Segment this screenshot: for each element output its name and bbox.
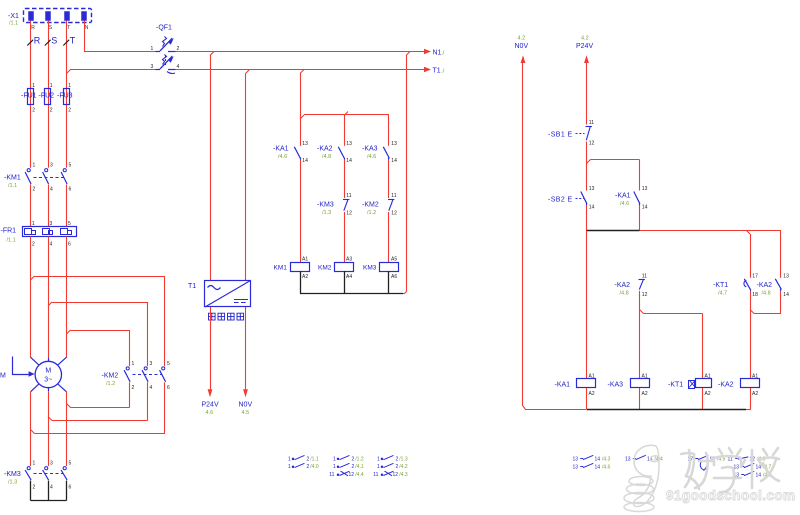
branch to KA1 holding contact (587, 160, 640, 191)
svg-text:/4.6: /4.6 (367, 154, 376, 160)
xref KM2 row 2: 1-2 /4.1 (333, 463, 364, 470)
watermark character xue (714, 448, 741, 492)
svg-text:N0V: N0V (239, 402, 253, 409)
coil KM1 (291, 263, 310, 272)
svg-text:P24V: P24V (202, 402, 219, 409)
svg-text:17: 17 (752, 273, 758, 279)
svg-text:14: 14 (589, 205, 595, 211)
wire L3 KM1 to FR1 (66, 185, 68, 227)
svg-text:1: 1 (32, 221, 35, 227)
svg-text:11: 11 (329, 472, 334, 478)
svg-text:4.2: 4.2 (581, 36, 589, 42)
wire KM3 coil to return bus (388, 271, 390, 294)
xref KT1 row 1: 17-18 /4.5 (688, 455, 726, 470)
svg-text:1: 1 (377, 456, 380, 462)
svg-text:5: 5 (167, 361, 170, 367)
wire KA1 to junction bar (639, 205, 641, 231)
svg-text:/: / (443, 50, 445, 57)
svg-text:A6: A6 (391, 274, 397, 280)
coil KT1 (689, 379, 712, 389)
wire KM3 NC to KM2 coil (344, 212, 346, 262)
svg-text:3~: 3~ (44, 377, 52, 384)
svg-text:/1.3: /1.3 (8, 480, 17, 486)
svg-text:T: T (70, 36, 76, 46)
svg-text:N0V: N0V (515, 43, 529, 50)
svg-text:-KA2: -KA2 (615, 282, 631, 289)
wire phase L1 from X1 to fuse (30, 21, 32, 168)
thermal overload relay FR1 (23, 227, 77, 237)
svg-text:-KM2: -KM2 (102, 373, 119, 380)
svg-text:KM2: KM2 (318, 265, 332, 272)
xref KM2 row 1: 1-2 /1.2 (333, 455, 364, 462)
wire L1 FR1 to motor (30, 236, 32, 357)
svg-text:5: 5 (69, 163, 72, 169)
motor M1 3-phase (35, 361, 61, 387)
svg-text:2: 2 (352, 456, 355, 462)
svg-text:11: 11 (642, 273, 647, 279)
motor stub bottom-right (58, 384, 67, 392)
svg-text:/: / (443, 68, 445, 75)
wire V2 motor to KM3 (48, 391, 50, 466)
svg-text:12: 12 (589, 141, 595, 147)
svg-text:11: 11 (589, 120, 594, 126)
svg-text:2: 2 (33, 485, 36, 491)
svg-text:/1.3: /1.3 (399, 456, 408, 462)
svg-text:-KM3: -KM3 (4, 471, 21, 478)
wire drop to T1 transformer right (246, 70, 250, 281)
relay contact KA3 NO (383, 147, 389, 160)
svg-text:1: 1 (50, 83, 53, 89)
svg-text:3: 3 (150, 361, 153, 367)
motor stub top-right (58, 357, 67, 365)
wire P24V column to KA1 coil (586, 231, 588, 380)
label DC power text (209, 313, 244, 320)
svg-text:6: 6 (167, 385, 170, 391)
svg-text:91goodschool.com: 91goodschool.com (666, 488, 795, 503)
xref KA1 row 1: 13-14 /4.3 (573, 455, 611, 462)
coil return bus (300, 293, 403, 295)
svg-text:4: 4 (50, 485, 53, 491)
svg-text:/4.8: /4.8 (762, 291, 771, 297)
wire T1 output N0V (245, 307, 247, 389)
svg-text:R: R (31, 25, 35, 31)
fuse FU1 (28, 89, 34, 105)
wire SB2 to junction bar (586, 205, 588, 231)
svg-text:2: 2 (352, 464, 355, 470)
svg-text:14: 14 (595, 464, 601, 470)
svg-text:A4: A4 (346, 274, 352, 280)
svg-text:12: 12 (391, 211, 397, 217)
svg-text:12: 12 (642, 292, 648, 298)
xref KA2 row 2: 13-14 /4.7 (734, 463, 772, 470)
branch L1 to KM2 pole 5 (31, 276, 166, 366)
wire KM2 NC to KM3 coil (388, 212, 390, 262)
arrow N0V down (243, 389, 248, 397)
svg-text:1: 1 (33, 163, 36, 169)
svg-text:14: 14 (595, 456, 601, 462)
svg-text:1: 1 (377, 464, 380, 470)
relay contact KA2 NO (338, 147, 344, 160)
svg-text:/4.8: /4.8 (322, 154, 331, 160)
junction bar SB2-KA1 (587, 230, 640, 232)
terminal letters R S T N (31, 25, 89, 31)
svg-text:-KT1: -KT1 (713, 282, 728, 289)
coil KM2 (335, 263, 354, 272)
wire drop to control ladder (300, 70, 304, 146)
svg-text:13: 13 (302, 141, 308, 147)
svg-text:18: 18 (752, 292, 758, 298)
wire T1 line (176, 69, 426, 71)
svg-text:T: T (67, 25, 70, 31)
svg-text:M: M (0, 373, 6, 380)
svg-text:-KA3: -KA3 (362, 146, 378, 153)
svg-text:13: 13 (642, 186, 648, 192)
svg-text:-KA3: -KA3 (608, 382, 624, 389)
fuse FU2 (45, 89, 51, 105)
transformer T1 DC power supply (205, 281, 251, 308)
contactor KM1 main contacts (25, 169, 67, 184)
wire L2 FR1 to motor (48, 236, 50, 358)
wire KM1 coil to return bus (300, 271, 302, 294)
svg-text:KM3: KM3 (363, 265, 377, 272)
svg-text:A1: A1 (302, 257, 308, 263)
motor stub bottom-center (48, 388, 50, 392)
xref KM3 row 3: 11-12 /4.3 (373, 471, 408, 478)
svg-text:2: 2 (33, 187, 36, 193)
wire KM2 coil to return bus (344, 271, 346, 294)
wire KT1 contact to KA2 coil (750, 291, 752, 314)
svg-text:3: 3 (50, 461, 53, 467)
svg-text:-KA2: -KA2 (757, 282, 773, 289)
svg-text:T1: T1 (188, 283, 196, 290)
watermark character xiao (741, 448, 779, 488)
svg-text:/1.1: /1.1 (8, 183, 17, 189)
coil KM3 (380, 263, 399, 272)
motor stub top-center (48, 358, 50, 362)
phase mark slash on L3 (63, 40, 69, 46)
svg-text:2: 2 (307, 456, 310, 462)
star point link of KM3 (31, 481, 67, 501)
svg-text:/1.2: /1.2 (355, 456, 364, 462)
svg-text:/1.1: /1.1 (7, 238, 16, 244)
wire L1 KM1 to FR1 (30, 185, 32, 227)
svg-text:/4.3: /4.3 (399, 472, 408, 478)
svg-text:4: 4 (150, 385, 153, 391)
svg-text:14: 14 (783, 292, 789, 298)
wire KT1 coil to bottom bus (702, 388, 704, 410)
svg-text:-FR1: -FR1 (1, 228, 17, 235)
arrow P24V down (208, 389, 213, 397)
svg-text:6: 6 (69, 485, 72, 491)
wire phase L2 from X1 to fuse (48, 21, 50, 168)
svg-text:P24V: P24V (576, 43, 593, 50)
motor stub bottom-left (31, 384, 40, 392)
svg-text:13: 13 (391, 141, 397, 147)
branch L2 to KM2 pole 3 (48, 302, 148, 366)
wire branch from T to QF1 pin3 (67, 70, 156, 74)
svg-text:11: 11 (346, 193, 351, 199)
terminal strip X1 (24, 9, 92, 23)
watermark character hao (681, 450, 713, 489)
svg-text:3: 3 (50, 163, 53, 169)
wire P24V down to SB1 (586, 63, 588, 125)
arrow N0V from 4.2 (521, 55, 526, 63)
svg-text:N1: N1 (433, 50, 442, 57)
svg-text:-KA1: -KA1 (555, 382, 571, 389)
svg-text:-FU1: -FU1 (21, 93, 37, 100)
wire KM2 pole2 to motor V2 (48, 382, 148, 420)
svg-text:2: 2 (132, 385, 135, 391)
wire KA2 NC to KA3 coil (640, 291, 703, 379)
motor stub top-left (31, 357, 40, 365)
svg-text:1: 1 (288, 456, 291, 462)
phase mark slash on L2 (45, 40, 51, 46)
wire KA2 coil to bottom bus (750, 388, 752, 410)
svg-text:-KT1: -KT1 (668, 382, 683, 389)
coil KA3 (631, 379, 650, 388)
svg-text:T1: T1 (433, 68, 441, 75)
interlock contact KM3 NC (343, 200, 349, 211)
coil KA1 (577, 379, 596, 388)
svg-text:-KA1: -KA1 (615, 193, 631, 200)
svg-text:13: 13 (573, 456, 579, 462)
xref KA2 row 3: 13-14 /4.8 (734, 471, 772, 478)
svg-text:A1: A1 (705, 374, 711, 380)
wire N0V rail (523, 63, 587, 410)
wire return to N1 for coils (401, 52, 411, 294)
svg-text:/1.1: /1.1 (9, 21, 18, 27)
wire L3 FR1 to motor (66, 236, 68, 357)
start button SB2 NO (576, 192, 587, 206)
svg-text:A2: A2 (302, 274, 308, 280)
phase mark slash on L1 (27, 40, 33, 46)
svg-text:2: 2 (396, 456, 399, 462)
wire W2 motor to KM3 (66, 392, 68, 466)
svg-text:13: 13 (589, 186, 595, 192)
svg-text:13: 13 (346, 141, 352, 147)
svg-text:4.5: 4.5 (242, 410, 250, 416)
svg-text:1: 1 (288, 464, 291, 470)
svg-text:13: 13 (625, 456, 631, 462)
svg-text:A2: A2 (642, 391, 648, 397)
svg-text:-FU2: -FU2 (39, 93, 55, 100)
svg-text:/1.1: /1.1 (310, 456, 319, 462)
svg-text:-KM1: -KM1 (4, 175, 21, 182)
wire junction to KA2 coil (750, 314, 752, 380)
svg-text:-FU3: -FU3 (57, 93, 73, 100)
xref KM1 row 2: 1-2 /4.0 (288, 463, 319, 470)
wire KM2 pole1 to motor W2 (67, 382, 130, 407)
wire phase L3 from X1 to fuse (66, 21, 68, 168)
svg-text:KM1: KM1 (274, 265, 288, 272)
wire KA3 to KM2 contact (388, 160, 390, 198)
svg-text:A2: A2 (705, 391, 711, 397)
wire KA1 coil to bottom bus (586, 388, 588, 410)
motor drive arrow M (13, 357, 35, 377)
svg-text:1: 1 (32, 83, 35, 89)
svg-text:S: S (51, 36, 57, 46)
svg-text:5: 5 (69, 461, 72, 467)
svg-text:/4.6: /4.6 (278, 154, 287, 160)
svg-text:/4.2: /4.2 (399, 464, 408, 470)
svg-text:/4.6: /4.6 (620, 201, 629, 207)
svg-text:A1: A1 (642, 374, 648, 380)
svg-text:14: 14 (642, 205, 648, 211)
svg-text:4: 4 (50, 187, 53, 193)
svg-text:A1: A1 (752, 374, 758, 380)
svg-text:-QF1: -QF1 (156, 25, 172, 32)
svg-text:12: 12 (349, 472, 355, 478)
svg-text:4.2: 4.2 (518, 36, 526, 42)
svg-text:1: 1 (33, 461, 36, 467)
svg-text:5: 5 (68, 221, 71, 227)
wire U2 motor to KM3 (30, 392, 32, 466)
svg-text:M: M (45, 368, 51, 375)
svg-text:R: R (34, 36, 41, 46)
QF1 mechanical link dashes (166, 55, 176, 74)
svg-text:A1: A1 (589, 374, 595, 380)
svg-text:-KA2: -KA2 (718, 382, 734, 389)
svg-text:11: 11 (373, 472, 378, 478)
branch L3 to KM2 pole 1 (67, 330, 130, 366)
wire SB1 to SB2 (586, 142, 588, 191)
relay contact KA2 NO right (775, 279, 781, 291)
xref KA1 row 2: 13-14 /4.6 (573, 463, 611, 470)
svg-text:A3: A3 (346, 257, 352, 263)
breaker QF1 pole 3-4 (156, 55, 176, 70)
wire KA2 to KM3 contact (344, 160, 346, 198)
svg-text:A2: A2 (752, 391, 758, 397)
svg-text:6: 6 (69, 187, 72, 193)
svg-text:-KM3: -KM3 (317, 202, 334, 209)
svg-text:13: 13 (573, 464, 579, 470)
wire KA1 to KM1 coil (300, 160, 302, 262)
svg-text:/4.4: /4.4 (355, 472, 364, 478)
relay contact KA1 NO (294, 147, 300, 160)
arrow T1 (424, 67, 431, 72)
xref KM2 row 3: 11-12 /4.4 (329, 471, 364, 478)
svg-text:-SB1 E: -SB1 E (548, 132, 573, 139)
svg-text:1: 1 (333, 464, 336, 470)
interlock contact KA2 NC right (639, 280, 645, 290)
svg-text:/1.2: /1.2 (106, 381, 115, 387)
wire N1 line (176, 51, 426, 53)
bottom return bus right (587, 409, 751, 411)
interlock contact KM2 NC (388, 200, 394, 211)
xref KM3 row 2: 1-2 /4.2 (377, 463, 408, 470)
xref KA3 row 1: 13-14 /4.4 (625, 455, 663, 462)
svg-text:11: 11 (391, 193, 396, 199)
svg-text:A2: A2 (589, 391, 595, 397)
svg-text:4.6: 4.6 (206, 410, 214, 416)
svg-text:-KM2: -KM2 (362, 202, 379, 209)
xref KA2 row 1: 11-12 /4.6 (728, 456, 766, 462)
svg-text:N: N (85, 25, 89, 31)
wire ladder top rail (300, 112, 389, 146)
svg-text:14: 14 (391, 158, 397, 164)
svg-text:S: S (49, 25, 53, 31)
wire N from X1 to QF1 pin1 (85, 21, 156, 52)
svg-text:2: 2 (32, 242, 35, 248)
xref KM1 row 1: 1-2 /1.1 (288, 455, 319, 462)
svg-text:2: 2 (307, 464, 310, 470)
breaker QF1 pole 1-2 (156, 37, 176, 52)
contactor KM2 main contacts (124, 367, 166, 382)
svg-text:1: 1 (151, 46, 154, 52)
contactor KM3 star contacts (25, 467, 67, 480)
svg-text:/4.6: /4.6 (602, 464, 611, 470)
svg-text:-KA1: -KA1 (273, 146, 289, 153)
arrow N1 (424, 49, 431, 54)
xref KM3 row 1: 1-2 /1.3 (377, 455, 408, 462)
svg-text:-X1: -X1 (8, 13, 19, 20)
svg-text:6: 6 (68, 242, 71, 248)
svg-text:/1.2: /1.2 (367, 210, 376, 216)
svg-text:/4.8: /4.8 (620, 291, 629, 297)
svg-text:2: 2 (50, 108, 53, 114)
svg-text:2: 2 (396, 464, 399, 470)
svg-text:12: 12 (346, 211, 352, 217)
svg-text:13: 13 (783, 273, 789, 279)
svg-text:3: 3 (50, 221, 53, 227)
svg-text:4: 4 (50, 242, 53, 248)
svg-text:A5: A5 (391, 257, 397, 263)
svg-text:14: 14 (346, 158, 352, 164)
wire KM2 pole3 to motor U2 (31, 382, 166, 433)
svg-text:-KA2: -KA2 (317, 146, 333, 153)
svg-text:/4.3: /4.3 (602, 456, 611, 462)
svg-text:1: 1 (333, 456, 336, 462)
coil KA2 (741, 379, 760, 388)
svg-text:1: 1 (132, 361, 135, 367)
svg-text:1: 1 (68, 83, 71, 89)
watermark logo mascot swirl (624, 445, 660, 511)
wire KA2 NO to junction (750, 291, 781, 314)
svg-text:2: 2 (32, 108, 35, 114)
wire T1 output P24V (210, 307, 212, 389)
svg-text:2: 2 (68, 108, 71, 114)
svg-text:12: 12 (393, 472, 399, 478)
svg-text:14: 14 (756, 472, 762, 478)
svg-text:-SB2 E: -SB2 E (548, 197, 573, 204)
wire L2 KM1 to FR1 (48, 185, 50, 227)
stop button SB1 NC (576, 127, 592, 141)
wire drop to T1 transformer left (210, 52, 214, 281)
svg-text:3: 3 (151, 64, 154, 70)
svg-text:/4.7: /4.7 (718, 291, 727, 297)
svg-text:/1.3: /1.3 (322, 210, 331, 216)
wire KA3 coil to bottom bus (639, 388, 641, 410)
svg-text:/4.0: /4.0 (310, 464, 319, 470)
svg-text:/4.1: /4.1 (355, 464, 364, 470)
timer contact KT1 NO delayed (744, 279, 751, 291)
svg-text:14: 14 (302, 158, 308, 164)
holding contact KA1 NO (634, 192, 640, 206)
fuse FU3 (64, 89, 70, 105)
wire rail to KT1 and KA2 contacts (640, 230, 782, 278)
arrow P24V from 4.2 (584, 55, 589, 63)
